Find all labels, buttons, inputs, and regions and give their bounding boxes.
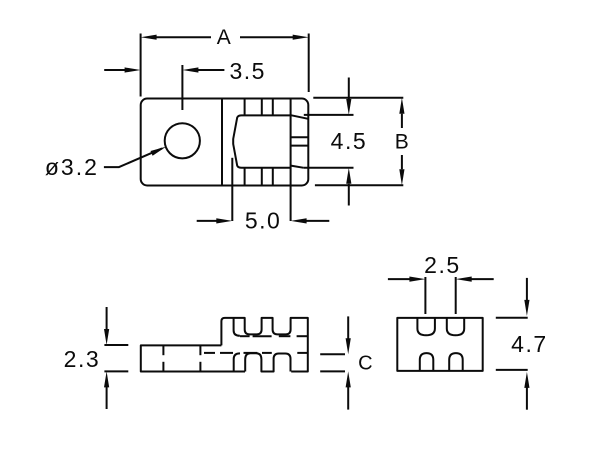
serration line S2 [261, 99, 263, 186]
svg-text:5.0: 5.0 [245, 208, 281, 234]
dimension B [313, 98, 404, 186]
end view top notch 1 [417, 318, 435, 335]
end view bottom notch 2 [449, 353, 463, 371]
barrel rung lower [291, 145, 308, 147]
dimension 2.3 [104, 307, 128, 409]
serration line S1 [244, 99, 246, 186]
crimp barrel line [290, 99, 292, 186]
side view bend line 1 [162, 345, 164, 371]
end view bottom notch 1 [420, 353, 434, 371]
side view bend line 2 [199, 345, 201, 371]
svg-text:2.5: 2.5 [424, 252, 460, 278]
svg-text:2.3: 2.3 [64, 346, 100, 372]
tongue outline [233, 115, 290, 167]
top view body outline [141, 99, 309, 186]
svg-text:C: C [358, 353, 372, 375]
svg-text:4.5: 4.5 [331, 128, 367, 154]
leader ø3.2 [104, 147, 166, 168]
dimension 2.5 [388, 277, 494, 315]
side view bottom lance [234, 353, 240, 371]
svg-text:ø3.2: ø3.2 [45, 154, 99, 180]
bend line [221, 99, 223, 186]
side view bottom notch 1 [245, 353, 290, 371]
barrel rung upper [291, 136, 308, 138]
end view body [397, 318, 482, 371]
side view hidden line lower [204, 352, 307, 354]
end view top notch 2 [447, 318, 464, 335]
dimension C [320, 316, 351, 409]
side view hidden line upper [240, 335, 308, 337]
tongue flare lower [291, 166, 304, 168]
side view top lance [234, 318, 240, 336]
hole ø3.2 [165, 123, 200, 158]
serration line S3 [272, 99, 274, 186]
svg-text:B: B [395, 131, 409, 154]
side view bar [141, 345, 245, 371]
dimension 4.7 [496, 278, 530, 410]
tongue flare upper [291, 115, 308, 119]
dimension 3.5 [104, 65, 224, 110]
svg-text:A: A [217, 26, 231, 49]
dimension 4.5 [304, 78, 354, 206]
dimension 5.0 [197, 158, 330, 224]
svg-text:4.7: 4.7 [511, 331, 547, 357]
svg-text:3.5: 3.5 [229, 58, 265, 84]
dimension A [141, 34, 309, 97]
side view top profile [221, 318, 307, 372]
